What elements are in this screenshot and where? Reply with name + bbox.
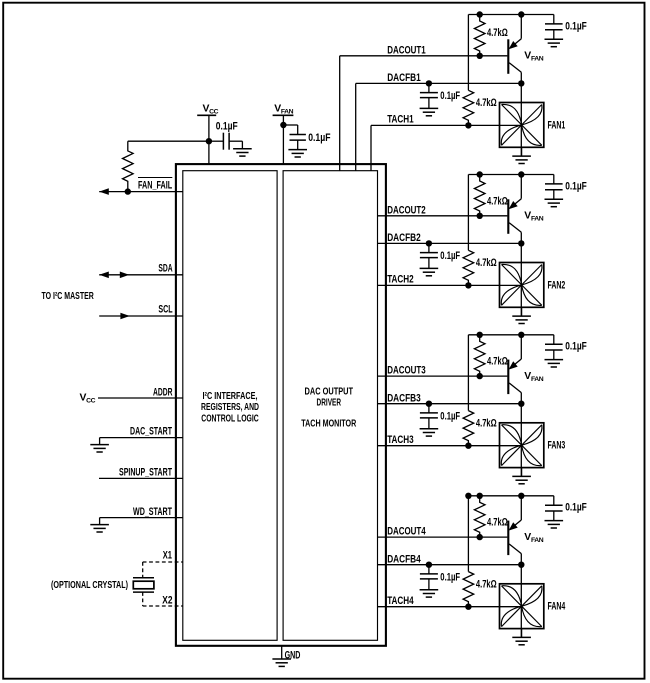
svg-text:DACOUT2: DACOUT2: [387, 204, 426, 216]
power VCC supply terminal: [197, 114, 216, 116]
svg-text:0.1µF: 0.1µF: [565, 341, 587, 353]
fan FAN2 symbol: [500, 263, 544, 308]
svg-text:TACH1: TACH1: [387, 114, 414, 126]
wire vertical branch to TACH4 pull-up: [467, 496, 469, 572]
wire TACH2: [378, 284, 522, 286]
wire DACFB3: [378, 403, 522, 405]
pin X1 dashed wire: [143, 561, 183, 563]
resistor R4B 4.7k ohm TACH4 pull-up: [463, 572, 474, 607]
wire VFAN rail channel 4: [468, 495, 553, 497]
resistor R1 pull-up on FAN_FAIL: [123, 141, 134, 191]
fan FAN1 symbol: [500, 103, 544, 148]
wire vertical branch to TACH1 pull-up: [467, 15, 469, 91]
svg-text:FAN3: FAN3: [548, 440, 566, 452]
node VFAN junction: [280, 122, 286, 128]
wire DACOUT4: [378, 536, 508, 538]
svg-text:4.7kΩ: 4.7kΩ: [487, 27, 508, 39]
node DACFB2 collector junction: [518, 240, 524, 246]
svg-text:4.7kΩ: 4.7kΩ: [487, 195, 508, 207]
svg-text:0.1µF: 0.1µF: [216, 120, 238, 132]
pin DAC_START wire: [100, 437, 183, 439]
resistor R4A 4.7k ohm base pull-up: [474, 496, 485, 537]
ground for FAN4: [521, 629, 523, 638]
svg-text:CONTROL LOGIC: CONTROL LOGIC: [201, 413, 259, 425]
wire DACFB1: [356, 82, 522, 84]
node emitter rail junction Q1: [518, 11, 524, 17]
wire vertical branch to TACH3 pull-up: [467, 335, 469, 411]
ground for C1A: [545, 38, 564, 40]
node emitter rail junction Q3: [518, 332, 524, 338]
resistor R3A 4.7k ohm base pull-up: [474, 335, 485, 376]
wire DACFB4: [378, 564, 522, 566]
svg-text:4.7kΩ: 4.7kΩ: [487, 356, 508, 368]
pin SDA bidirectional wire: [99, 274, 183, 276]
transistor Q4 PNP pass element: [507, 521, 509, 556]
ground at GND pin: [272, 658, 291, 660]
fan FAN4 symbol: [500, 584, 544, 629]
node TACH3 junction: [465, 443, 471, 449]
wire VFAN rail channel 1: [468, 14, 553, 16]
svg-text:TACH MONITOR: TACH MONITOR: [301, 417, 356, 429]
svg-text:TACH3: TACH3: [387, 434, 414, 446]
node DACOUT1 base junction: [477, 53, 483, 59]
svg-text:DRIVER: DRIVER: [317, 397, 342, 409]
capacitor C2A 0.1uF fan supply bypass: [553, 175, 555, 184]
power VFAN supply terminal: [273, 114, 294, 116]
ground for FAN1: [521, 147, 523, 156]
wire VFAN rail channel 2: [468, 174, 553, 176]
wire VCC to FAN_FAIL pull-up: [128, 140, 209, 142]
wire collector through FAN1 to ground: [520, 83, 522, 156]
node emitter rail junction Q4: [518, 493, 524, 499]
crystal Y1 (optional): [142, 562, 144, 577]
node FAN_FAIL junction: [125, 188, 131, 194]
wire TACH1 riser from U1 top: [370, 125, 372, 170]
ground for C1B: [420, 107, 439, 109]
wire vertical branch to TACH2 pull-up: [467, 175, 469, 251]
resistor R2A 4.7k ohm base pull-up: [474, 175, 485, 216]
ground for FAN3: [521, 468, 523, 477]
svg-text:REGISTERS, AND: REGISTERS, AND: [201, 401, 259, 413]
op-amp U1 fan-controller IC outline: [176, 164, 386, 646]
wire TACH4: [378, 606, 522, 608]
ground for C4B: [420, 589, 439, 591]
fan FAN3 symbol: [500, 423, 544, 468]
ground for C2: [288, 149, 307, 151]
capacitor C1A 0.1uF fan supply bypass: [553, 15, 555, 24]
wire DACOUT1 riser from U1 top: [339, 56, 341, 171]
node TACH4 junction: [465, 604, 471, 610]
svg-text:4.7kΩ: 4.7kΩ: [476, 257, 497, 269]
ground for FAN2: [521, 307, 523, 316]
wire collector through FAN4 to ground: [520, 565, 522, 638]
svg-text:DACOUT3: DACOUT3: [387, 365, 426, 377]
svg-text:ADDR: ADDR: [153, 386, 173, 398]
ground for WD_START: [90, 524, 109, 526]
capacitor C3A 0.1uF fan supply bypass: [553, 335, 555, 344]
node DACFB1 collector junction: [518, 80, 524, 86]
pin GND wire: [281, 646, 283, 659]
svg-text:4.7kΩ: 4.7kΩ: [476, 579, 497, 591]
svg-text:0.1µF: 0.1µF: [440, 250, 460, 262]
svg-text:0.1µF: 0.1µF: [440, 411, 460, 423]
svg-text:TACH4: TACH4: [387, 595, 414, 607]
pin ADDR wire from VCC: [98, 397, 183, 399]
svg-text:FAN4: FAN4: [548, 601, 566, 613]
capacitor C1 0.1uF VCC bypass: [209, 140, 224, 142]
node rail resistor junction channel 4: [477, 493, 483, 499]
node emitter rail junction Q2: [518, 171, 524, 177]
resistor R2B 4.7k ohm TACH2 pull-up: [463, 250, 474, 285]
svg-text:TACH2: TACH2: [387, 274, 414, 286]
svg-text:4.7kΩ: 4.7kΩ: [476, 418, 497, 430]
pin FAN_FAIL wire with output arrow: [99, 191, 183, 193]
node TACH2 junction: [465, 282, 471, 288]
pin SCL input wire: [99, 315, 183, 317]
svg-text:FAN_FAIL: FAN_FAIL: [138, 179, 172, 191]
svg-text:SPINUP_START: SPINUP_START: [119, 467, 172, 479]
svg-text:0.1µF: 0.1µF: [565, 180, 587, 192]
svg-text:0.1µF: 0.1µF: [565, 502, 587, 514]
svg-text:FAN1: FAN1: [548, 119, 566, 131]
svg-text:DACFB3: DACFB3: [387, 392, 421, 404]
svg-text:X2: X2: [162, 594, 172, 606]
svg-text:TO I²C MASTER: TO I²C MASTER: [42, 290, 95, 302]
wire DACFB1 riser from U1 top: [355, 83, 357, 170]
svg-text:4.7kΩ: 4.7kΩ: [487, 517, 508, 529]
svg-text:WD_START: WD_START: [133, 506, 172, 518]
transistor Q3 PNP pass element: [507, 360, 509, 395]
node VCC junction: [206, 138, 212, 144]
svg-text:DACFB2: DACFB2: [387, 232, 421, 244]
wire DACOUT1: [340, 55, 508, 57]
pin WD_START wire: [100, 517, 183, 519]
ground for C2B: [420, 267, 439, 269]
capacitor C4A 0.1uF fan supply bypass: [553, 496, 555, 505]
wire collector through FAN2 to ground: [520, 243, 522, 316]
node DACFB4 collector junction: [518, 562, 524, 568]
ground for C2A: [545, 198, 564, 200]
svg-text:SDA: SDA: [158, 262, 172, 274]
svg-text:0.1µF: 0.1µF: [440, 572, 460, 584]
ground for DAC_START: [90, 444, 109, 446]
node rail corner junction channel 4: [465, 493, 471, 499]
U1 right section: DAC output driver / tach monitor: [283, 171, 377, 641]
svg-text:0.1µF: 0.1µF: [565, 20, 587, 32]
capacitor C3B 0.1uF on DACFB3: [426, 401, 432, 407]
U1 left section: I2C interface, registers, control logic: [183, 171, 277, 641]
svg-text:0.1µF: 0.1µF: [308, 132, 331, 144]
wire DACOUT3: [378, 375, 508, 377]
node DACOUT2 base junction: [477, 213, 483, 219]
node TACH1 junction: [465, 122, 471, 128]
node rail resistor junction channel 2: [477, 171, 483, 177]
pin X2 dashed wire: [143, 605, 183, 607]
wire collector through FAN3 to ground: [520, 404, 522, 477]
resistor R3B 4.7k ohm TACH3 pull-up: [463, 411, 474, 446]
wire TACH3: [378, 445, 522, 447]
wire TACH1: [371, 124, 521, 126]
svg-text:DACFB4: DACFB4: [387, 553, 421, 565]
resistor R1A 4.7k ohm base pull-up: [474, 15, 485, 56]
svg-text:SCL: SCL: [158, 304, 172, 316]
wire VFAN rail channel 3: [468, 334, 553, 336]
node rail resistor junction channel 1: [477, 11, 483, 17]
svg-text:0.1µF: 0.1µF: [440, 90, 460, 102]
capacitor C2B 0.1uF on DACFB2: [426, 240, 432, 246]
wire DACOUT2: [378, 215, 508, 217]
wire DACFB2: [378, 242, 522, 244]
svg-text:DACOUT4: DACOUT4: [387, 526, 426, 538]
capacitor C1B 0.1uF on DACFB1: [426, 80, 432, 86]
ground for C4A: [545, 520, 564, 522]
ground for C1: [233, 148, 252, 150]
node DACOUT4 base junction: [477, 534, 483, 540]
node DACOUT3 base junction: [477, 373, 483, 379]
svg-text:(OPTIONAL CRYSTAL): (OPTIONAL CRYSTAL): [51, 579, 128, 591]
ground for C3B: [420, 428, 439, 430]
capacitor C2 0.1uF VFAN bypass: [283, 124, 297, 126]
pin SPINUP_START wire: [99, 477, 183, 479]
capacitor C4B 0.1uF on DACFB4: [426, 562, 432, 568]
svg-text:X1: X1: [163, 549, 172, 561]
svg-text:GND: GND: [285, 650, 301, 662]
node DACFB3 collector junction: [518, 401, 524, 407]
resistor R1B 4.7k ohm TACH1 pull-up: [463, 90, 474, 125]
node rail resistor junction channel 3: [477, 332, 483, 338]
svg-text:DACOUT1: DACOUT1: [387, 44, 426, 56]
transistor Q1 PNP pass element: [507, 39, 509, 74]
svg-text:FAN2: FAN2: [548, 279, 566, 291]
transistor Q2 PNP pass element: [507, 199, 509, 234]
ground for C3A: [545, 359, 564, 361]
svg-text:DAC_START: DAC_START: [130, 425, 172, 437]
svg-text:DACFB1: DACFB1: [387, 72, 421, 84]
svg-text:4.7kΩ: 4.7kΩ: [476, 97, 497, 109]
